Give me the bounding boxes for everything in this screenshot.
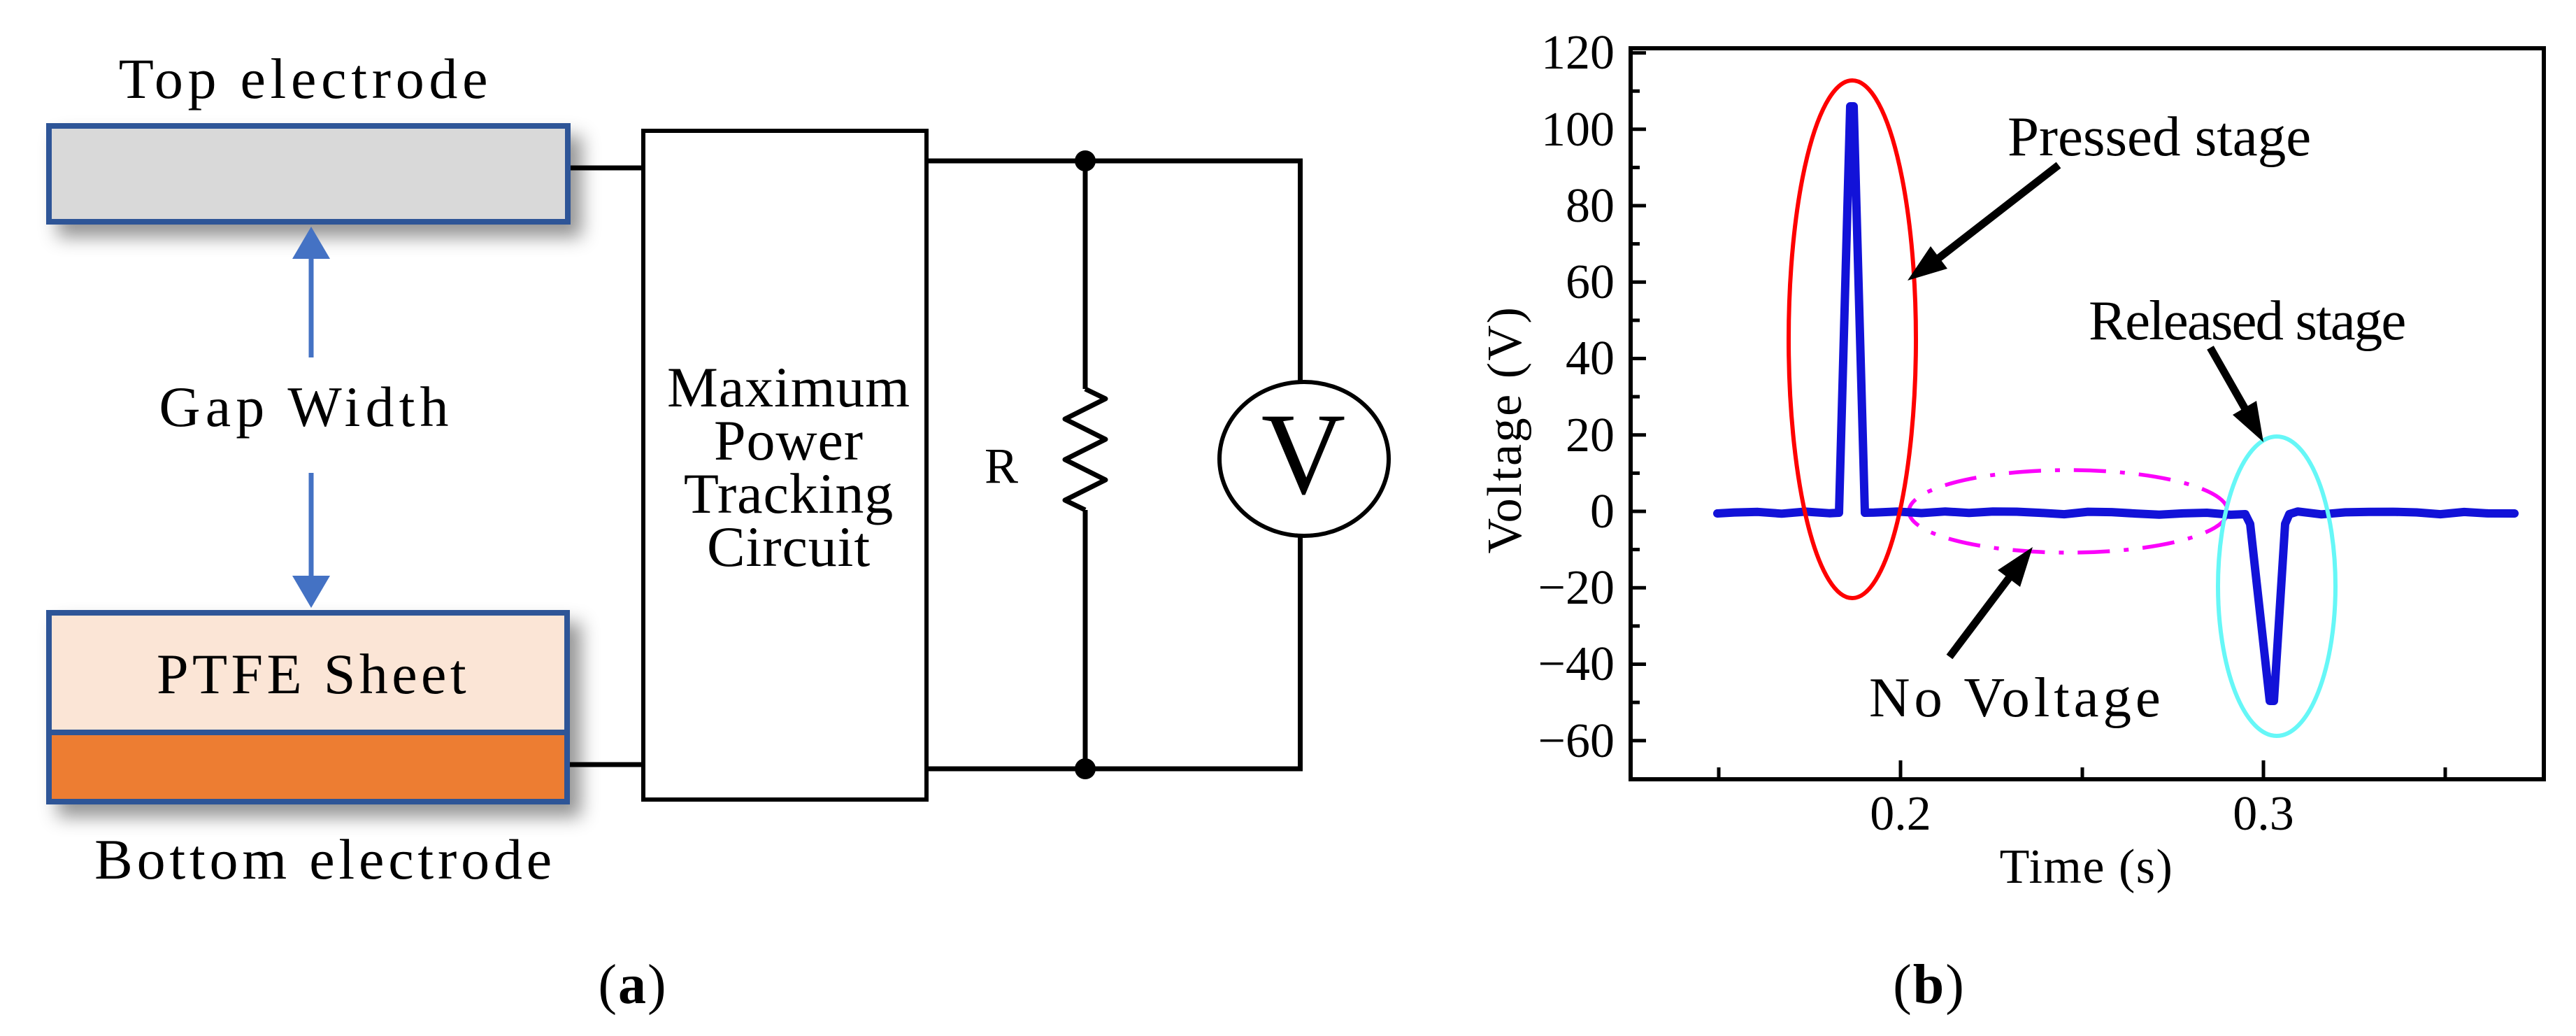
svg-text:Voltage (V): Voltage (V)	[1478, 306, 1532, 554]
